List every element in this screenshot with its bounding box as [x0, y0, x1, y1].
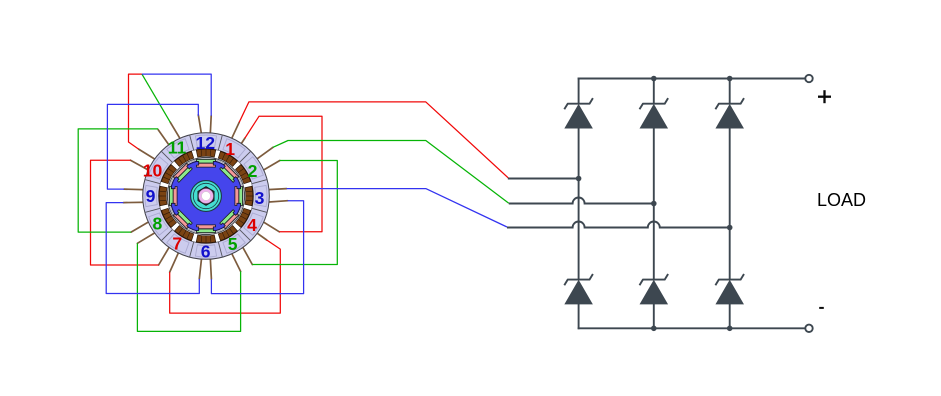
wire bottom negative rail [579, 327, 806, 329]
diode D5 (bottom, leg 2) [640, 274, 669, 285]
junction phase C / leg3 [727, 225, 733, 231]
motor M1 stator ring [143, 133, 270, 260]
wire red loop slot1-slot4 [245, 116, 322, 232]
wire red slot10 to star point [129, 74, 142, 149]
motor M1 shaft hub [191, 181, 222, 212]
svg-text:5: 5 [228, 234, 238, 254]
wire phase C feed to leg 3 (hops legs 1,2) [507, 222, 730, 228]
wire blue phase-C output: slot3 to rectifier [287, 189, 507, 227]
terminal positive output [805, 75, 812, 82]
junction top rail leg3 [727, 76, 733, 82]
svg-text:2: 2 [248, 161, 258, 181]
wire blue slot12 to star point [142, 74, 211, 116]
wire blue loop slot9-slot12 [107, 104, 198, 189]
motor M1 stator windings (copper) [159, 149, 253, 243]
diode D2 (top, leg 2) [640, 98, 669, 109]
svg-text:3: 3 [255, 188, 265, 208]
wire blue loop slot3-slot6 [211, 201, 303, 294]
terminal negative output [805, 325, 812, 332]
junction top rail leg2 [651, 76, 657, 82]
wire green loop slot8-slot11 [78, 129, 158, 232]
svg-text:8: 8 [153, 213, 163, 233]
wire rectifier leg 2 vertical [653, 79, 655, 103]
wire green loop slot5-slot8 [137, 243, 240, 331]
svg-text:LOAD: LOAD [817, 190, 866, 210]
label + [818, 90, 831, 103]
wire green slot11 to star point [142, 74, 170, 122]
wire phase A feed to leg 1 [509, 178, 579, 180]
junction bottom rail leg2 [651, 326, 657, 332]
junction bottom rail leg3 [727, 326, 733, 332]
junction phase B / leg2 [651, 201, 657, 207]
motor M1 rotor poles [169, 159, 242, 232]
diode D1 (top, leg 1) [564, 98, 593, 109]
diode D6 (bottom, leg 3) [715, 274, 744, 285]
diode D4 (bottom, leg 1) [564, 274, 593, 285]
wire red phase-A output: slot1 to rectifier [239, 102, 509, 178]
wire red loop slot4-slot7 [170, 240, 281, 313]
motor M1 terminal stubs [123, 115, 287, 279]
wire blue loop slot6-slot9 [106, 203, 199, 294]
svg-text:12: 12 [196, 133, 216, 153]
svg-text:10: 10 [143, 160, 163, 180]
wire phase B feed to leg 2 (hops leg 1) [509, 198, 654, 204]
motor M1 slot numbers 1-12 [143, 133, 265, 261]
motor M1 rotor [170, 160, 242, 232]
wire rectifier leg 1 vertical [578, 79, 580, 103]
svg-text:1: 1 [225, 139, 235, 159]
motor M1 stator tooth shoes [167, 157, 246, 236]
svg-text:4: 4 [247, 215, 257, 235]
svg-text:6: 6 [201, 242, 211, 262]
svg-text:7: 7 [172, 234, 182, 254]
wire red loop slot7-slot10 [91, 160, 159, 265]
label - [819, 307, 824, 309]
wire top positive rail [579, 78, 806, 80]
wire green phase-B output: slot2 to rectifier [273, 141, 509, 204]
svg-text:9: 9 [146, 186, 156, 206]
diode D3 (top, leg 3) [715, 98, 744, 109]
wire green loop slot2-slot5 [252, 161, 337, 265]
junction phase A / leg1 [576, 176, 582, 182]
wire rectifier leg 3 vertical [729, 79, 731, 103]
svg-text:11: 11 [168, 138, 187, 158]
